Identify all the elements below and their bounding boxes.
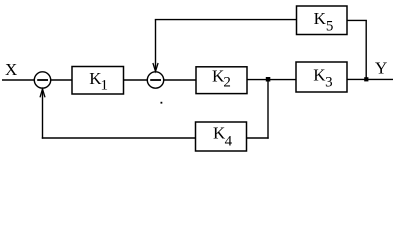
- wire to K4 right edge: [247, 137, 269, 139]
- block K4: [196, 122, 247, 151]
- wire K2 to K3: [247, 79, 296, 81]
- wire to K5 right edge: [347, 19, 367, 21]
- wire summing junction 1 to K1: [51, 79, 72, 81]
- svg-text:X: X: [5, 60, 17, 79]
- node B junction dot: [364, 77, 368, 81]
- wire up into summing junction 1: [42, 89, 44, 139]
- wire summing junction 2 to K2: [164, 79, 196, 81]
- wire node A down to K4 feedback: [267, 81, 269, 139]
- svg-text:2: 2: [223, 75, 231, 91]
- wire node B up to K5 feedback: [365, 20, 367, 79]
- block K1: [72, 67, 124, 95]
- block K2: [196, 67, 247, 94]
- svg-text:K: K: [314, 9, 327, 28]
- wire K5 left edge to top-left corner: [155, 19, 297, 21]
- svg-text:3: 3: [325, 75, 333, 91]
- summing junction 1: [34, 72, 50, 88]
- svg-text:4: 4: [225, 133, 233, 149]
- arrowhead into summing junction 1: [40, 89, 45, 97]
- minus sign in summing junction 1: [37, 79, 48, 81]
- svg-text:Y: Y: [375, 59, 387, 78]
- wire down into summing junction 2: [155, 20, 157, 71]
- wire K3 to output Y: [347, 78, 393, 80]
- node A junction dot: [266, 77, 271, 82]
- summing junction 2: [147, 72, 163, 88]
- svg-text:1: 1: [101, 78, 109, 94]
- block K3: [296, 62, 347, 92]
- wire K1 to summing junction 2: [124, 79, 148, 81]
- arrowhead into summing junction 2: [153, 63, 158, 71]
- wire input X to summing junction 1: [2, 79, 34, 81]
- minus sign in summing junction 2: [150, 79, 161, 81]
- block K5: [297, 6, 348, 35]
- stray dot: [161, 102, 163, 104]
- wire K4 left edge to bottom-left corner: [42, 137, 196, 139]
- svg-text:5: 5: [326, 19, 334, 35]
